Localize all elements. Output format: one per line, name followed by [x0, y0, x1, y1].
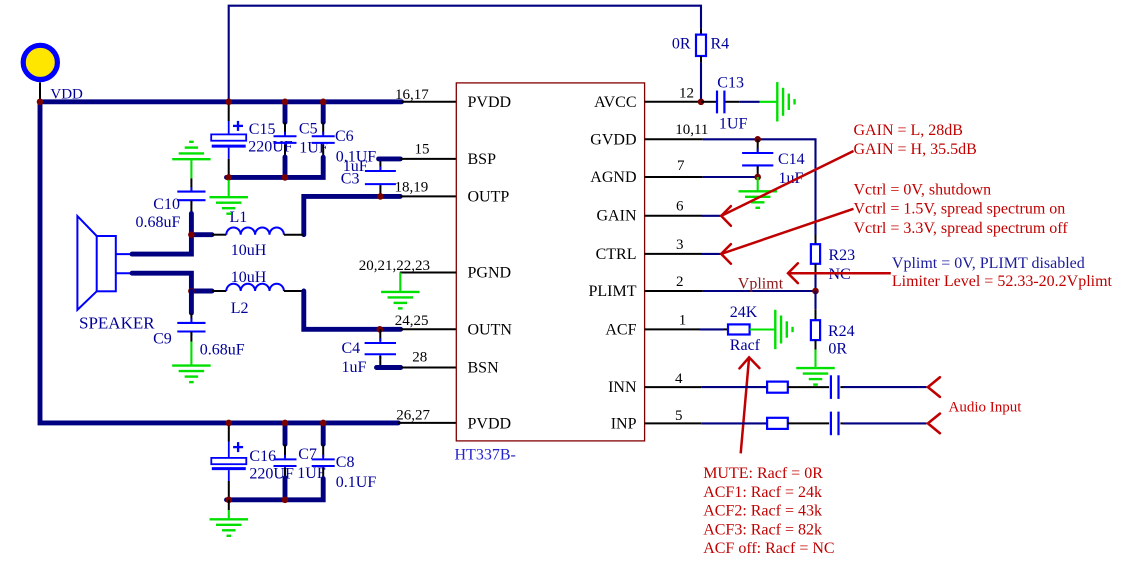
note Vctrl settings [854, 182, 1069, 237]
svg-text:C10: C10 [153, 196, 180, 213]
capacitor C15 [211, 102, 293, 178]
wire speaker lower to L2 [132, 273, 212, 291]
wire INP resistor to cap [788, 422, 829, 424]
svg-text:28: 28 [412, 350, 427, 366]
inverted ground above C10 [172, 142, 210, 179]
svg-text:C6: C6 [335, 128, 354, 145]
svg-text:MUTE: Racf = 0R: MUTE: Racf = 0R [703, 465, 823, 482]
svg-text:2: 2 [676, 274, 684, 290]
svg-text:26,27: 26,27 [396, 408, 430, 424]
svg-text:10uH: 10uH [231, 242, 267, 259]
svg-text:5: 5 [675, 408, 683, 424]
wire pin12 AVCC stub [645, 101, 701, 103]
svg-text:0.68uF: 0.68uF [136, 214, 181, 231]
svg-text:GAIN: GAIN [597, 208, 637, 225]
wire pin26,27 stub [398, 422, 456, 424]
svg-text:PVDD: PVDD [468, 415, 512, 432]
svg-text:12: 12 [679, 86, 694, 102]
svg-text:Limiter Level = 52.33-20.2Vpli: Limiter Level = 52.33-20.2Vplimt [892, 273, 1113, 290]
svg-text:Vctrl = 0V, shutdown: Vctrl = 0V, shutdown [854, 182, 992, 199]
junction dots top bus [37, 99, 327, 106]
svg-text:Vplimt: Vplimt [738, 275, 784, 292]
capacitor C5 [274, 102, 328, 178]
wire top loop to R4 [229, 6, 701, 100]
ground under AGND [738, 177, 777, 208]
svg-text:L2: L2 [231, 300, 249, 317]
svg-text:INP: INP [611, 415, 637, 432]
svg-text:Audio Input: Audio Input [949, 399, 1023, 415]
capacitor C9 [153, 313, 245, 358]
resistor R23 [811, 235, 855, 291]
ground under C16 rail [210, 500, 249, 536]
wire INN cap to input [840, 386, 926, 388]
svg-text:Vctrl = 3.3V, spread spectrum: Vctrl = 3.3V, spread spectrum off [854, 220, 1069, 237]
svg-text:C16: C16 [249, 448, 276, 465]
svg-text:3: 3 [676, 237, 684, 253]
wire C10 to L1 junction [189, 214, 194, 237]
svg-text:10uH: 10uH [231, 269, 267, 286]
wire ACF stub [645, 328, 728, 330]
junction AVCC/R4/C13 [698, 99, 705, 106]
svg-text:24K: 24K [730, 304, 758, 321]
junction dots mini rail [225, 174, 288, 181]
arrowhead INP input [928, 414, 940, 434]
svg-text:INN: INN [608, 379, 637, 396]
svg-text:16,17: 16,17 [395, 87, 429, 103]
svg-text:ACF1: Racf = 24k: ACF1: Racf = 24k [703, 484, 822, 501]
wire VDD rail (top bus, left rail, bottom bus) [40, 102, 402, 423]
pin numbers right [675, 86, 708, 425]
junction speaker/L1 [188, 231, 195, 238]
svg-text:BSP: BSP [468, 151, 497, 168]
wire OUTP bus [304, 196, 401, 234]
svg-text:C4: C4 [342, 340, 361, 357]
svg-text:0R: 0R [672, 36, 691, 53]
power port VDD [23, 45, 83, 102]
junction C4/OUTN [377, 326, 384, 333]
capacitor C14 [742, 139, 805, 187]
junction dots bottom bus [226, 420, 327, 427]
wire OUTP stub to IC [400, 195, 456, 197]
svg-text:1uF: 1uF [342, 359, 367, 376]
capacitor C6 [312, 102, 377, 166]
wire OUTN bus [304, 291, 401, 329]
wire mini rail under C16/C7/C8 [227, 479, 324, 500]
svg-text:GVDD: GVDD [590, 131, 636, 148]
wire C9 drop [189, 291, 194, 313]
svg-text:OUTP: OUTP [468, 188, 510, 205]
wire speaker upper to L1 [132, 235, 212, 254]
speaker LS [77, 216, 155, 332]
svg-text:18,19: 18,19 [394, 180, 428, 196]
svg-text:CTRL: CTRL [596, 246, 637, 263]
svg-text:0R: 0R [828, 341, 847, 358]
svg-text:C13: C13 [717, 74, 744, 91]
svg-text:10,11: 10,11 [675, 122, 708, 138]
resistor R4 [672, 29, 729, 99]
svg-text:GAIN = H, 35.5dB: GAIN = H, 35.5dB [854, 141, 977, 158]
resistor Racf 24K [728, 304, 761, 354]
capacitor C13 [701, 74, 747, 132]
svg-text:BSN: BSN [468, 360, 500, 377]
svg-text:4: 4 [675, 371, 683, 387]
ground under C9 [172, 342, 211, 383]
wire pin16,17 stub [401, 101, 456, 103]
ground under C15 rail [209, 180, 248, 214]
arrow to CTRL pin [721, 209, 853, 264]
svg-text:1uF: 1uF [343, 158, 368, 175]
arrowhead INN input [928, 377, 940, 397]
svg-text:SPEAKER: SPEAKER [79, 314, 155, 333]
ground right of Racf [750, 310, 793, 349]
svg-text:R23: R23 [829, 247, 856, 264]
svg-text:Racf: Racf [730, 337, 761, 354]
arrow to Vplimt node [788, 263, 891, 283]
resistor INN series [767, 382, 788, 393]
svg-text:R4: R4 [711, 36, 730, 53]
svg-text:15: 15 [415, 141, 430, 157]
svg-text:PLIMT: PLIMT [589, 283, 637, 300]
svg-text:C14: C14 [778, 151, 805, 168]
svg-text:R24: R24 [828, 323, 855, 340]
wire mini rail under C15/C5/C6 [227, 157, 324, 177]
svg-text:C9: C9 [153, 331, 172, 348]
inductor L2 [212, 269, 304, 317]
junction GVDD/C14 [754, 136, 761, 143]
node label Vplimt [738, 275, 784, 292]
svg-text:C5: C5 [299, 120, 318, 137]
wire CTRL stub [645, 253, 721, 255]
arrow from MUTE note to Racf [739, 357, 759, 453]
junction node C3/OUTP [377, 193, 384, 200]
inductor L1 [212, 209, 304, 259]
wire INP cap to input [840, 422, 926, 424]
capacitor C10 [136, 178, 206, 231]
svg-text:24,25: 24,25 [395, 313, 429, 329]
svg-text:OUTN: OUTN [468, 321, 513, 338]
svg-text:7: 7 [677, 158, 685, 174]
svg-text:HT337B-: HT337B- [455, 447, 516, 464]
svg-text:PGND: PGND [468, 265, 512, 282]
ground under R24 [796, 350, 835, 385]
capacitor INN series [831, 375, 839, 399]
junction speaker/L2 [188, 288, 195, 295]
capacitor C8 [312, 423, 377, 491]
svg-text:C8: C8 [336, 454, 355, 471]
wire GAIN stub [645, 215, 721, 217]
resistor INP series [767, 418, 788, 429]
note GAIN settings [854, 122, 977, 158]
svg-text:ACF3: Racf = 82k: ACF3: Racf = 82k [703, 521, 822, 538]
capacitor INP series [831, 412, 839, 436]
wire INP stub [645, 422, 768, 424]
svg-text:1UF: 1UF [719, 116, 748, 133]
wire INN stub [645, 386, 768, 388]
svg-text:GAIN = L, 28dB: GAIN = L, 28dB [854, 122, 963, 139]
label Audio Input [949, 399, 1023, 415]
svg-text:ACF2: Racf = 43k: ACF2: Racf = 43k [703, 503, 822, 520]
capacitor C4 [342, 329, 397, 376]
svg-text:0.68uF: 0.68uF [200, 341, 245, 358]
capacitor C3 [341, 158, 396, 197]
svg-text:Vctrl = 1.5V, spread spectrum: Vctrl = 1.5V, spread spectrum on [854, 201, 1066, 218]
wire PGND stub and ground [381, 273, 456, 309]
svg-text:6: 6 [676, 198, 684, 214]
wire BSN stub [377, 365, 457, 370]
svg-text:Vplimt = 0V, PLIMT disabled: Vplimt = 0V, PLIMT disabled [892, 255, 1085, 272]
IC U1 HT337B [455, 83, 645, 464]
wire GVDD to R23 drop [703, 139, 816, 235]
junction PLIMT/R23/R24 [812, 288, 819, 295]
svg-text:0.1UF: 0.1UF [336, 474, 377, 491]
svg-text:PVDD: PVDD [468, 94, 512, 111]
wire AGND stub [645, 176, 758, 178]
svg-text:1: 1 [679, 312, 687, 328]
svg-text:AGND: AGND [590, 169, 636, 186]
svg-text:ACF off: Racf = NC: ACF off: Racf = NC [703, 540, 834, 557]
capacitor C7 [274, 423, 326, 500]
svg-text:C15: C15 [249, 121, 276, 138]
wire BSP stub [379, 156, 457, 161]
note ACF table [703, 465, 834, 557]
wire OUTN stub to IC [400, 328, 456, 330]
pin numbers left [359, 87, 431, 423]
arrow to GAIN pin [721, 151, 853, 226]
resistor R24 [811, 291, 855, 358]
junction AGND/C14 [754, 174, 761, 181]
note Vplimt formula [892, 255, 1113, 290]
wire C13 to ground [739, 101, 759, 103]
junction dots bottom mini rail [226, 497, 289, 504]
svg-text:L1: L1 [230, 209, 248, 226]
wire GVDD stub [645, 138, 703, 140]
svg-text:ACF: ACF [605, 322, 636, 339]
ground right of C13 [760, 82, 795, 121]
capacitor C16 [211, 423, 294, 500]
svg-text:220UF: 220UF [248, 139, 293, 156]
wire PLIMT stub [645, 290, 816, 292]
svg-text:AVCC: AVCC [594, 94, 636, 111]
wire INN resistor to cap [788, 386, 829, 388]
